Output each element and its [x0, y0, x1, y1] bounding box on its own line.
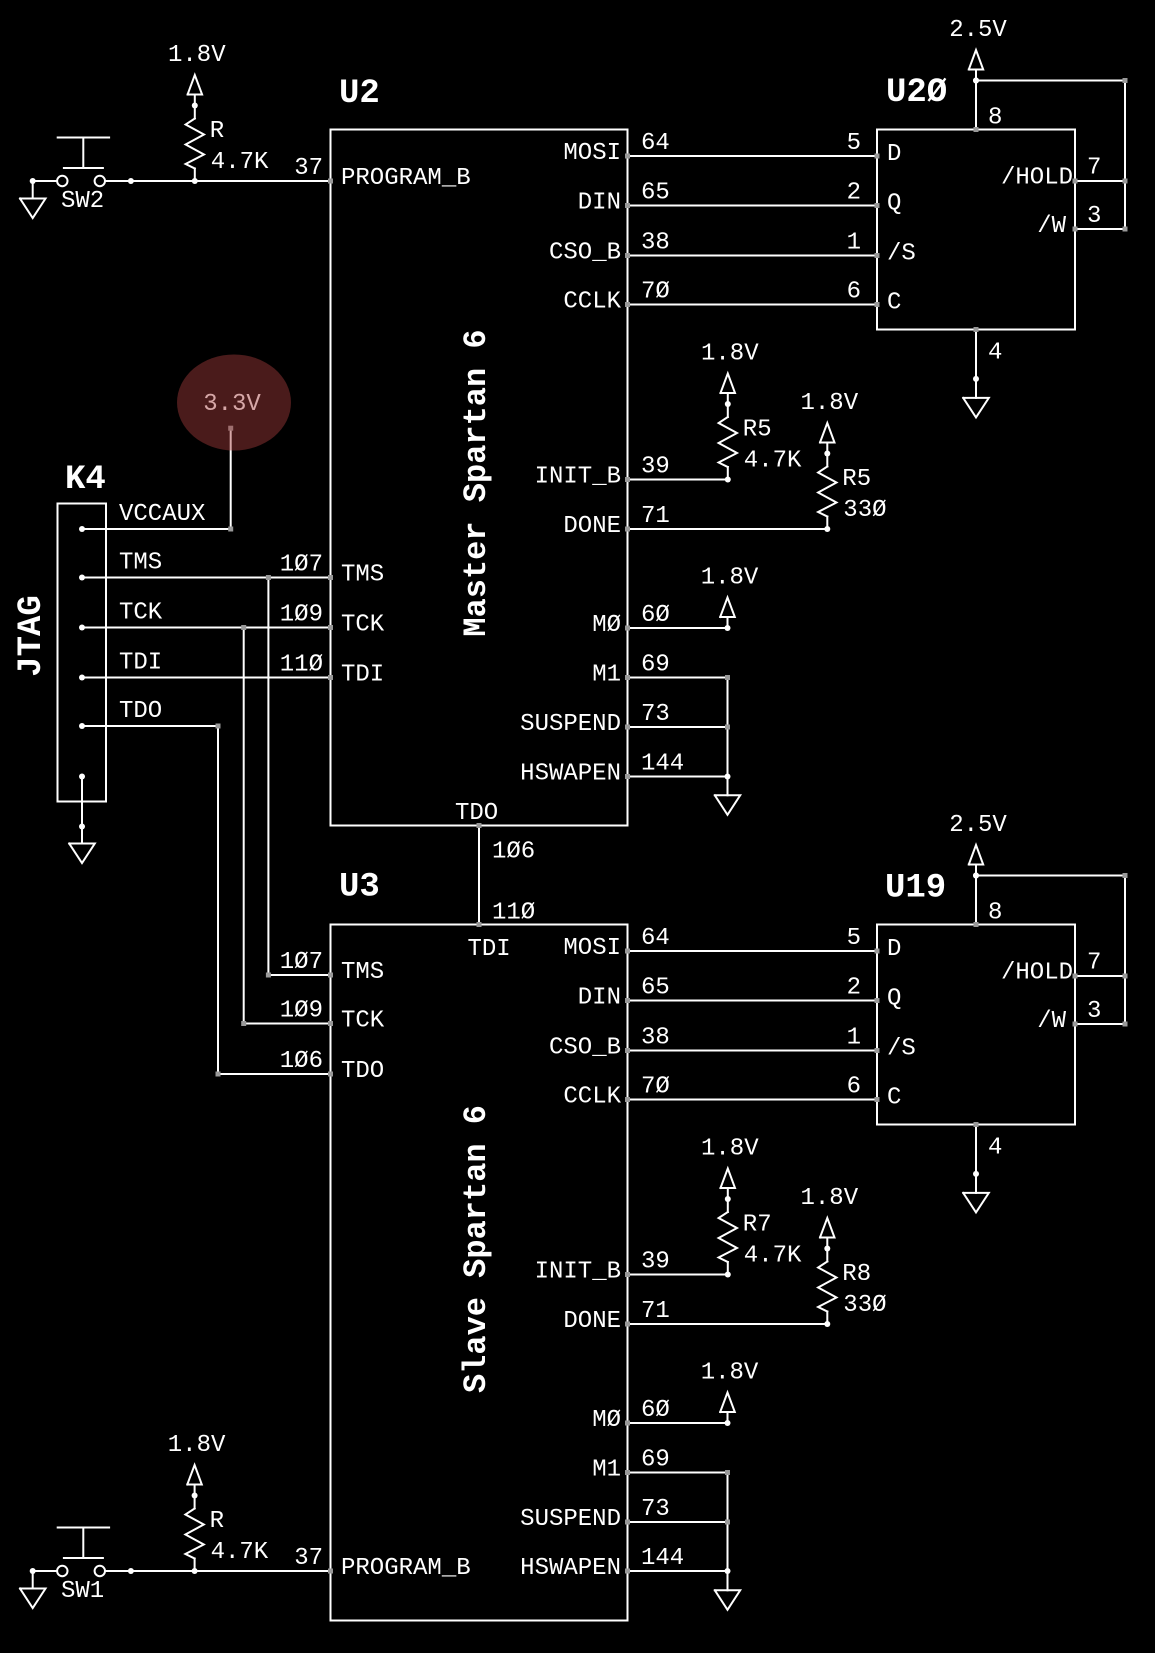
svg-text:DONE: DONE: [563, 1308, 621, 1335]
svg-text:TMS: TMS: [341, 562, 384, 589]
svg-text:1.8V: 1.8V: [800, 1185, 858, 1212]
svg-text:69: 69: [641, 652, 670, 679]
svg-text:U2Ø: U2Ø: [886, 74, 947, 112]
svg-text:38: 38: [641, 1025, 670, 1052]
svg-text:HSWAPEN: HSWAPEN: [520, 1555, 621, 1582]
svg-text:C: C: [887, 290, 901, 317]
svg-text:2: 2: [847, 975, 861, 1002]
svg-text:1Ø9: 1Ø9: [280, 602, 323, 629]
svg-text:PROGRAM_B: PROGRAM_B: [341, 165, 471, 192]
svg-text:4: 4: [988, 1135, 1002, 1162]
svg-text:TCK: TCK: [119, 600, 163, 627]
svg-text:D: D: [887, 936, 901, 963]
svg-text:7Ø: 7Ø: [641, 279, 670, 306]
svg-text:71: 71: [641, 503, 670, 530]
svg-text:CSO_B: CSO_B: [549, 1035, 621, 1062]
svg-text:1: 1: [847, 1025, 861, 1052]
svg-text:M1: M1: [592, 662, 621, 689]
svg-text:CCLK: CCLK: [563, 289, 621, 316]
svg-text:8: 8: [988, 900, 1002, 927]
svg-text:MOSI: MOSI: [563, 935, 621, 962]
svg-text:PROGRAM_B: PROGRAM_B: [341, 1555, 471, 1582]
svg-text:INIT_B: INIT_B: [535, 1259, 621, 1286]
svg-text:/W: /W: [1037, 1008, 1066, 1035]
svg-text:65: 65: [641, 975, 670, 1002]
svg-text:69: 69: [641, 1447, 670, 1474]
svg-text:CSO_B: CSO_B: [549, 240, 621, 267]
svg-text:SW2: SW2: [61, 188, 104, 215]
svg-text:/HOLD: /HOLD: [1001, 165, 1073, 192]
svg-text:7: 7: [1087, 155, 1101, 182]
svg-text:MØ: MØ: [592, 612, 621, 639]
svg-text:/S: /S: [887, 241, 916, 268]
svg-text:1.8V: 1.8V: [701, 1136, 759, 1163]
svg-text:2: 2: [847, 180, 861, 207]
svg-text:1Ø6: 1Ø6: [280, 1048, 323, 1075]
svg-text:73: 73: [641, 701, 670, 728]
svg-text:SUSPEND: SUSPEND: [520, 711, 621, 738]
svg-text:6Ø: 6Ø: [641, 1397, 670, 1424]
svg-text:4: 4: [988, 340, 1002, 367]
svg-text:73: 73: [641, 1496, 670, 1523]
svg-text:R5: R5: [842, 466, 871, 493]
svg-text:1.8V: 1.8V: [168, 42, 226, 69]
svg-text:Q: Q: [887, 986, 901, 1013]
svg-text:TDO: TDO: [455, 800, 498, 827]
svg-text:M1: M1: [592, 1457, 621, 1484]
svg-text:11Ø: 11Ø: [280, 652, 323, 679]
svg-text:1Ø6: 1Ø6: [492, 839, 535, 866]
svg-text:6Ø: 6Ø: [641, 602, 670, 629]
svg-text:TCK: TCK: [341, 612, 385, 639]
svg-text:64: 64: [641, 925, 670, 952]
svg-text:1Ø7: 1Ø7: [280, 552, 323, 579]
svg-text:37: 37: [294, 1545, 323, 1572]
svg-text:5: 5: [847, 130, 861, 157]
svg-text:TMS: TMS: [119, 550, 162, 577]
svg-text:VCCAUX: VCCAUX: [119, 501, 205, 528]
svg-text:33Ø: 33Ø: [843, 497, 886, 524]
svg-text:4.7K: 4.7K: [744, 448, 802, 475]
svg-text:5: 5: [847, 925, 861, 952]
svg-text:TDO: TDO: [341, 1058, 384, 1085]
svg-text:CCLK: CCLK: [563, 1084, 621, 1111]
svg-text:8: 8: [988, 105, 1002, 132]
svg-text:DIN: DIN: [578, 190, 621, 217]
svg-text:R8: R8: [842, 1261, 871, 1288]
svg-text:TMS: TMS: [341, 959, 384, 986]
svg-text:C: C: [887, 1085, 901, 1112]
svg-text:4.7K: 4.7K: [211, 1539, 269, 1566]
svg-text:1.8V: 1.8V: [168, 1432, 226, 1459]
svg-text:MØ: MØ: [592, 1407, 621, 1434]
svg-text:1.8V: 1.8V: [800, 390, 858, 417]
svg-text:Q: Q: [887, 191, 901, 218]
svg-text:38: 38: [641, 230, 670, 257]
svg-text:R7: R7: [743, 1212, 772, 1239]
svg-text:/S: /S: [887, 1036, 916, 1063]
svg-text:39: 39: [641, 1249, 670, 1276]
svg-text:Master Spartan 6: Master Spartan 6: [458, 329, 495, 636]
svg-text:TDI: TDI: [341, 662, 384, 689]
svg-text:R: R: [210, 118, 224, 145]
svg-text:4.7K: 4.7K: [211, 149, 269, 176]
svg-text:INIT_B: INIT_B: [535, 464, 621, 491]
svg-text:2.5V: 2.5V: [949, 812, 1007, 839]
svg-text:U3: U3: [339, 869, 380, 907]
svg-text:Slave Spartan 6: Slave Spartan 6: [458, 1105, 495, 1393]
svg-text:DIN: DIN: [578, 985, 621, 1012]
svg-text:MOSI: MOSI: [563, 140, 621, 167]
svg-text:DONE: DONE: [563, 513, 621, 540]
svg-text:JTAG: JTAG: [13, 595, 51, 677]
svg-text:4.7K: 4.7K: [744, 1243, 802, 1270]
svg-text:65: 65: [641, 180, 670, 207]
svg-text:/HOLD: /HOLD: [1001, 960, 1073, 987]
svg-text:SUSPEND: SUSPEND: [520, 1506, 621, 1533]
svg-text:1Ø9: 1Ø9: [280, 998, 323, 1025]
svg-text:64: 64: [641, 130, 670, 157]
svg-text:71: 71: [641, 1298, 670, 1325]
svg-text:33Ø: 33Ø: [843, 1292, 886, 1319]
svg-text:1: 1: [847, 230, 861, 257]
svg-text:1.8V: 1.8V: [701, 1360, 759, 1387]
svg-text:TDI: TDI: [468, 936, 511, 963]
svg-text:/W: /W: [1037, 213, 1066, 240]
svg-text:7Ø: 7Ø: [641, 1074, 670, 1101]
svg-text:11Ø: 11Ø: [492, 900, 535, 927]
svg-text:7: 7: [1087, 950, 1101, 977]
svg-text:144: 144: [641, 1545, 684, 1572]
svg-text:37: 37: [294, 155, 323, 182]
svg-text:SW1: SW1: [61, 1578, 104, 1605]
svg-text:6: 6: [847, 1074, 861, 1101]
svg-text:R5: R5: [743, 417, 772, 444]
svg-text:144: 144: [641, 751, 684, 778]
svg-text:3: 3: [1087, 203, 1101, 230]
svg-text:D: D: [887, 141, 901, 168]
svg-text:1.8V: 1.8V: [701, 341, 759, 368]
svg-text:1Ø7: 1Ø7: [280, 949, 323, 976]
svg-text:U19: U19: [885, 870, 946, 908]
svg-text:U2: U2: [339, 75, 380, 113]
svg-text:TDI: TDI: [119, 650, 162, 677]
svg-text:HSWAPEN: HSWAPEN: [520, 761, 621, 788]
svg-text:2.5V: 2.5V: [949, 17, 1007, 44]
svg-text:K4: K4: [65, 461, 106, 499]
svg-text:39: 39: [641, 454, 670, 481]
svg-text:6: 6: [847, 279, 861, 306]
svg-text:TCK: TCK: [341, 1008, 385, 1035]
svg-text:1.8V: 1.8V: [701, 565, 759, 592]
svg-text:R: R: [210, 1508, 224, 1535]
svg-text:3: 3: [1087, 998, 1101, 1025]
svg-text:TDO: TDO: [119, 698, 162, 725]
